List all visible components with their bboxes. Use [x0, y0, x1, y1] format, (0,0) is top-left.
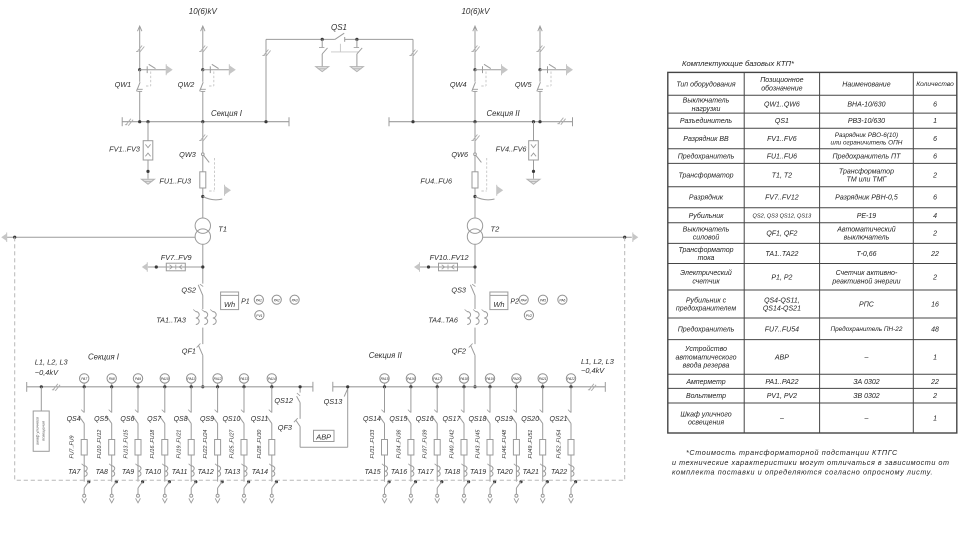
svg-text:P1: P1: [241, 299, 250, 306]
svg-text:FV7..FV9: FV7..FV9: [161, 253, 192, 262]
svg-text:Рубильник с: Рубильник с: [686, 296, 727, 304]
svg-text:L1, L2, L3: L1, L2, L3: [581, 357, 615, 366]
svg-text:QF2: QF2: [452, 347, 466, 356]
svg-text:TA11: TA11: [172, 469, 188, 476]
svg-text:ЗА 0302: ЗА 0302: [853, 379, 880, 386]
svg-text:Трансформатор: Трансформатор: [678, 173, 733, 180]
svg-text:Р1, Р2: Р1, Р2: [771, 274, 792, 281]
svg-text:6: 6: [933, 195, 937, 202]
svg-text:Секция II: Секция II: [369, 351, 403, 360]
svg-text:QS6: QS6: [120, 416, 134, 423]
svg-text:PA14: PA14: [268, 377, 276, 381]
svg-text:QS19: QS19: [495, 416, 513, 423]
svg-text:2: 2: [932, 231, 937, 238]
svg-text:L1, L2, L3: L1, L2, L3: [35, 358, 69, 367]
svg-text:TA10: TA10: [145, 469, 161, 476]
svg-text:–: –: [863, 416, 868, 423]
svg-text:PA17: PA17: [433, 377, 441, 381]
svg-text:QS8: QS8: [174, 416, 188, 423]
svg-text:РПС: РПС: [859, 302, 875, 309]
svg-text:~0,4kV: ~0,4kV: [581, 366, 605, 375]
svg-text:1: 1: [933, 416, 937, 423]
svg-text:FV10..FV12: FV10..FV12: [430, 253, 469, 262]
svg-text:FU49..FU51: FU49..FU51: [528, 430, 534, 459]
svg-text:и технические характеристики м: и технические характеристики могут отлич…: [672, 458, 950, 467]
svg-text:T2: T2: [491, 225, 501, 234]
svg-text:FU16..FU18: FU16..FU18: [150, 430, 156, 459]
svg-text:QS3: QS3: [451, 286, 466, 295]
svg-text:FU4..FU6: FU4..FU6: [420, 177, 453, 186]
svg-text:Количество: Количество: [916, 81, 954, 88]
svg-text:TA15: TA15: [364, 469, 380, 476]
svg-text:PA2: PA2: [274, 298, 280, 302]
svg-text:Т1, Т2: Т1, Т2: [772, 173, 792, 180]
svg-text:QS15: QS15: [389, 416, 407, 423]
svg-text:22: 22: [930, 251, 939, 258]
svg-text:10(6)kV: 10(6)kV: [189, 7, 218, 16]
svg-text:QW1: QW1: [115, 80, 132, 89]
svg-text:силовой: силовой: [693, 234, 720, 242]
svg-text:QS14: QS14: [363, 416, 381, 423]
svg-text:Трансформатор: Трансформатор: [839, 168, 894, 175]
svg-text:PA8: PA8: [109, 377, 115, 381]
svg-text:Электрический: Электрический: [680, 269, 732, 277]
svg-text:Устройство: Устройство: [684, 345, 727, 353]
svg-text:ввода резерва: ввода резерва: [683, 362, 730, 370]
svg-text:16: 16: [931, 302, 939, 309]
svg-text:счетчик: счетчик: [692, 278, 720, 285]
svg-text:PA9: PA9: [135, 377, 141, 381]
svg-text:QW2: QW2: [178, 80, 195, 89]
svg-text:тока: тока: [698, 255, 715, 262]
svg-text:PA7: PA7: [81, 377, 87, 381]
svg-text:4: 4: [933, 213, 937, 220]
svg-text:TA22: TA22: [551, 469, 567, 476]
svg-text:QS5: QS5: [94, 416, 108, 423]
svg-text:QS9: QS9: [200, 416, 214, 423]
svg-text:QS10: QS10: [222, 416, 240, 423]
svg-text:TA20: TA20: [496, 469, 512, 476]
svg-text:РВЗ-10/630: РВЗ-10/630: [848, 118, 885, 125]
svg-text:обозначение: обозначение: [761, 84, 802, 92]
svg-text:P2: P2: [510, 299, 519, 306]
svg-text:2: 2: [932, 274, 937, 281]
svg-text:TA21: TA21: [523, 469, 539, 476]
svg-text:Автоматический: Автоматический: [836, 226, 895, 234]
svg-text:PA6: PA6: [559, 298, 565, 302]
svg-text:T1: T1: [218, 225, 227, 234]
svg-text:PA3: PA3: [292, 298, 298, 302]
svg-text:QW1..QW6: QW1..QW6: [764, 102, 800, 109]
svg-text:освещения: освещения: [41, 421, 46, 441]
svg-text:АВР: АВР: [315, 432, 331, 441]
svg-text:FU52..FU54: FU52..FU54: [556, 430, 562, 459]
svg-text:РЕ-19: РЕ-19: [857, 213, 877, 220]
svg-text:Выключатель: Выключатель: [683, 98, 730, 105]
svg-text:Амперметр: Амперметр: [685, 379, 725, 386]
svg-text:QS4-QS11,: QS4-QS11,: [764, 297, 800, 304]
svg-text:QS18: QS18: [468, 416, 486, 423]
svg-text:QF1, QF2: QF1, QF2: [766, 231, 797, 238]
svg-text:TA4..TA6: TA4..TA6: [428, 316, 459, 325]
svg-text:FU40..FU42: FU40..FU42: [449, 430, 455, 459]
svg-text:Разрядник ВВ: Разрядник ВВ: [683, 135, 729, 143]
svg-text:QW6: QW6: [451, 150, 469, 159]
svg-text:QS12: QS12: [274, 396, 293, 405]
svg-text:освещения: освещения: [688, 420, 724, 427]
svg-text:FU43..FU45: FU43..FU45: [475, 430, 481, 459]
svg-text:TA8: TA8: [96, 469, 108, 476]
svg-text:FU34..FU36: FU34..FU36: [396, 430, 402, 459]
svg-text:TA9: TA9: [122, 469, 134, 476]
svg-text:Секция I: Секция I: [88, 353, 120, 362]
svg-text:Предохранитель ПТ: Предохранитель ПТ: [833, 153, 902, 161]
svg-text:QS11: QS11: [251, 416, 268, 423]
svg-text:PA15: PA15: [381, 377, 389, 381]
svg-text:PA13: PA13: [240, 377, 248, 381]
svg-text:FU1..FU3: FU1..FU3: [159, 177, 191, 186]
svg-text:QS16: QS16: [416, 416, 434, 423]
svg-text:реактивной энергии: реактивной энергии: [831, 277, 900, 285]
svg-text:FU19..FU21: FU19..FU21: [177, 430, 183, 459]
svg-text:или ограничитель ОПН: или ограничитель ОПН: [831, 140, 903, 147]
svg-text:ВНА-10/630: ВНА-10/630: [847, 102, 885, 109]
svg-text:комплекта поставки и определяю: комплекта поставки и определяются соглас…: [672, 467, 933, 476]
svg-text:PA20: PA20: [512, 377, 520, 381]
svg-text:Разрядник РВО-6(10): Разрядник РВО-6(10): [835, 131, 898, 139]
svg-text:2: 2: [932, 393, 937, 400]
svg-text:FU7..FU9: FU7..FU9: [70, 435, 76, 458]
svg-text:ТМ или ТМГ: ТМ или ТМГ: [847, 177, 888, 184]
svg-text:АВР: АВР: [774, 354, 789, 361]
svg-text:QS2: QS2: [181, 286, 196, 295]
svg-text:Предохранитель: Предохранитель: [678, 325, 735, 333]
svg-text:*Стоимость трансформаторной по: *Стоимость трансформаторной подстанции К…: [686, 448, 898, 457]
svg-text:FU10..FU12: FU10..FU12: [97, 430, 103, 459]
svg-text:TA14: TA14: [252, 469, 268, 476]
svg-text:PA12: PA12: [214, 377, 222, 381]
svg-text:PA19: PA19: [486, 377, 494, 381]
svg-text:Рубильник: Рубильник: [689, 212, 725, 220]
svg-text:Разрядник: Разрядник: [689, 194, 724, 202]
svg-text:TA13: TA13: [224, 469, 240, 476]
svg-text:TA16: TA16: [391, 469, 407, 476]
svg-text:FU46..FU48: FU46..FU48: [502, 430, 508, 459]
svg-text:PV1: PV1: [256, 314, 262, 318]
svg-text:QS1: QS1: [775, 118, 789, 125]
svg-text:FU22..FU24: FU22..FU24: [203, 430, 209, 459]
svg-text:TA19: TA19: [470, 469, 486, 476]
svg-text:РА1..РА22: РА1..РА22: [765, 379, 798, 386]
svg-text:FV1..FV6: FV1..FV6: [767, 136, 797, 143]
svg-text:PA1: PA1: [256, 298, 262, 302]
svg-text:Трансформатор: Трансформатор: [678, 247, 733, 254]
svg-text:QF3: QF3: [278, 423, 292, 432]
svg-text:Секция II: Секция II: [487, 109, 521, 118]
svg-text:1: 1: [933, 354, 937, 361]
svg-text:Комплектующие базовых КТП*: Комплектующие базовых КТП*: [682, 59, 795, 68]
svg-text:PA10: PA10: [161, 377, 169, 381]
svg-text:QS1: QS1: [331, 23, 347, 32]
svg-text:PA22: PA22: [567, 377, 575, 381]
svg-text:QS20: QS20: [521, 416, 539, 423]
svg-text:22: 22: [930, 379, 939, 386]
svg-text:QW3: QW3: [179, 150, 196, 159]
svg-text:PA16: PA16: [407, 377, 415, 381]
svg-text:QS4: QS4: [67, 416, 81, 423]
svg-text:–: –: [863, 354, 868, 361]
svg-text:6: 6: [933, 154, 937, 161]
svg-text:QW4: QW4: [450, 80, 467, 89]
svg-text:выключатель: выключатель: [844, 235, 890, 242]
svg-text:QS17: QS17: [442, 416, 461, 423]
svg-text:TA7: TA7: [68, 469, 81, 476]
svg-text:ТА1..ТА22: ТА1..ТА22: [765, 251, 798, 258]
svg-text:нагрузки: нагрузки: [692, 106, 721, 113]
svg-text:Разрядник РВН-0,5: Разрядник РВН-0,5: [835, 194, 898, 202]
svg-text:Выключатель: Выключатель: [683, 227, 730, 234]
svg-text:TA18: TA18: [444, 469, 460, 476]
svg-text:FU25..FU27: FU25..FU27: [229, 429, 235, 459]
svg-text:Тип оборудования: Тип оборудования: [676, 80, 736, 88]
svg-text:QS13: QS13: [324, 397, 343, 406]
svg-text:2: 2: [932, 173, 937, 180]
svg-text:PV2: PV2: [526, 314, 532, 318]
svg-text:FU1..FU6: FU1..FU6: [767, 154, 797, 161]
svg-text:Вольтметр: Вольтметр: [686, 393, 726, 400]
svg-text:Предохранитель ПН-22: Предохранитель ПН-22: [831, 325, 903, 333]
svg-text:6: 6: [933, 136, 937, 143]
svg-text:TA17: TA17: [417, 469, 434, 476]
svg-text:TA12: TA12: [198, 469, 214, 476]
svg-text:Шкаф уличного: Шкаф уличного: [680, 411, 731, 418]
svg-text:FU37..FU39: FU37..FU39: [423, 430, 429, 459]
svg-text:QS21: QS21: [549, 416, 567, 423]
svg-text:10(6)kV: 10(6)kV: [461, 7, 490, 16]
svg-text:PA11: PA11: [187, 377, 195, 381]
svg-text:QF1: QF1: [182, 347, 196, 356]
svg-text:PA18: PA18: [460, 377, 468, 381]
svg-text:Wh: Wh: [224, 300, 235, 309]
svg-text:–: –: [779, 416, 784, 423]
svg-text:Наименование: Наименование: [842, 81, 890, 88]
svg-text:Wh: Wh: [493, 300, 504, 309]
svg-text:FU31..FU33: FU31..FU33: [370, 430, 376, 459]
svg-text:FU13..FU15: FU13..FU15: [123, 430, 129, 459]
svg-text:PA21: PA21: [539, 377, 547, 381]
svg-text:6: 6: [933, 102, 937, 109]
svg-text:FV1..FV3: FV1..FV3: [109, 145, 140, 154]
svg-text:QS7: QS7: [147, 416, 162, 423]
svg-text:48: 48: [931, 326, 939, 333]
svg-text:FV4..FV6: FV4..FV6: [496, 145, 528, 154]
svg-text:PA5: PA5: [540, 298, 546, 302]
svg-text:предохранителем: предохранителем: [676, 305, 736, 313]
svg-text:QS14-QS21: QS14-QS21: [763, 306, 801, 313]
svg-text:FU28..FU30: FU28..FU30: [257, 430, 263, 459]
svg-text:автоматического: автоматического: [676, 354, 737, 361]
svg-text:~0,4kV: ~0,4kV: [35, 368, 59, 377]
svg-text:PV1, PV2: PV1, PV2: [767, 393, 797, 400]
svg-text:Секция I: Секция I: [211, 109, 243, 118]
svg-text:QS2, QS3 QS12, QS13: QS2, QS3 QS12, QS13: [753, 213, 813, 219]
svg-text:TA1..TA3: TA1..TA3: [156, 316, 186, 325]
svg-text:Позиционное: Позиционное: [760, 77, 803, 84]
svg-text:ЗВ 0302: ЗВ 0302: [853, 393, 880, 400]
svg-text:Предохранитель: Предохранитель: [678, 153, 735, 161]
svg-text:1: 1: [933, 118, 937, 125]
svg-text:FU7..FU54: FU7..FU54: [765, 326, 799, 333]
svg-text:FV7..FV12: FV7..FV12: [765, 195, 799, 202]
svg-text:Счетчик активно-: Счетчик активно-: [836, 270, 898, 277]
svg-text:Разъединитель: Разъединитель: [680, 117, 733, 125]
svg-text:шкаф уличного: шкаф уличного: [35, 416, 40, 445]
svg-text:QW5: QW5: [515, 80, 533, 89]
svg-text:Т-0,66: Т-0,66: [856, 251, 876, 258]
svg-text:PA4: PA4: [521, 298, 527, 302]
